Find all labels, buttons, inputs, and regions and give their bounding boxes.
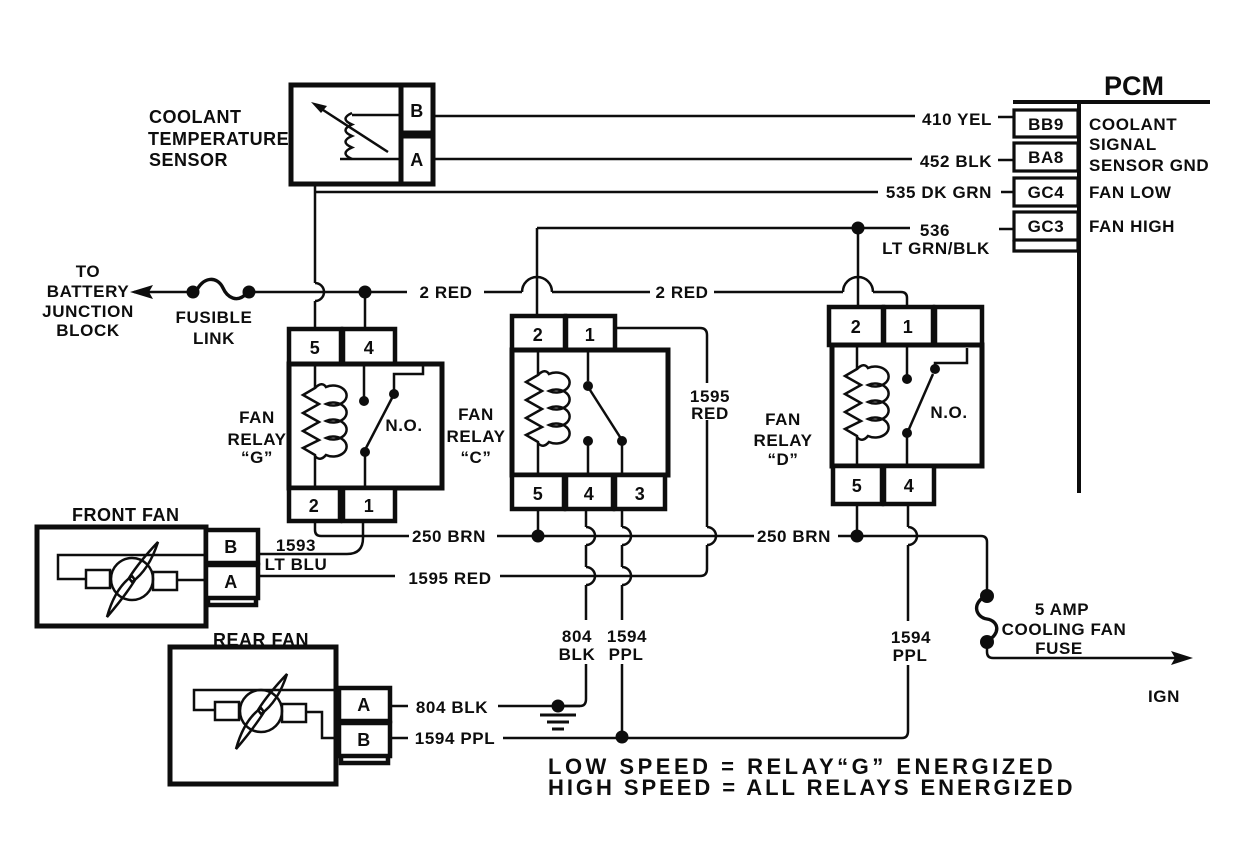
svg-text:COOLANT: COOLANT: [1089, 115, 1177, 134]
svg-text:TEMPERATURE: TEMPERATURE: [148, 129, 289, 149]
svg-text:452 BLK: 452 BLK: [920, 152, 992, 171]
svg-text:BATTERY: BATTERY: [47, 282, 130, 301]
svg-text:BB9: BB9: [1028, 115, 1064, 134]
svg-text:FRONT FAN: FRONT FAN: [72, 505, 180, 525]
svg-text:5: 5: [533, 484, 544, 504]
svg-text:1: 1: [364, 496, 375, 516]
svg-text:BA8: BA8: [1028, 148, 1064, 167]
svg-text:5 AMP: 5 AMP: [1035, 600, 1089, 619]
svg-text:BLK: BLK: [559, 645, 596, 664]
svg-text:“C”: “C”: [460, 448, 491, 467]
svg-text:FAN HIGH: FAN HIGH: [1089, 217, 1175, 236]
svg-text:RED: RED: [691, 404, 729, 423]
svg-text:FUSE: FUSE: [1035, 639, 1083, 658]
svg-text:REAR FAN: REAR FAN: [213, 630, 309, 650]
svg-text:804: 804: [562, 627, 592, 646]
svg-text:535 DK GRN: 535 DK GRN: [886, 183, 992, 202]
svg-text:LT GRN/BLK: LT GRN/BLK: [882, 239, 990, 258]
svg-text:1594 PPL: 1594 PPL: [415, 729, 495, 748]
svg-text:536: 536: [920, 221, 950, 240]
svg-text:RELAY: RELAY: [227, 430, 286, 449]
svg-text:IGN: IGN: [1148, 687, 1180, 706]
svg-text:1593: 1593: [276, 536, 316, 555]
svg-text:SIGNAL: SIGNAL: [1089, 135, 1157, 154]
svg-text:FAN: FAN: [765, 410, 801, 429]
svg-text:1594: 1594: [607, 627, 647, 646]
svg-text:2: 2: [533, 325, 544, 345]
svg-text:A: A: [224, 572, 238, 592]
svg-text:GC4: GC4: [1028, 183, 1065, 202]
svg-text:FAN: FAN: [458, 405, 494, 424]
svg-text:4: 4: [904, 476, 915, 496]
svg-text:COOLING FAN: COOLING FAN: [1002, 620, 1127, 639]
svg-text:B: B: [410, 101, 424, 121]
svg-text:PPL: PPL: [609, 645, 644, 664]
svg-text:1595 RED: 1595 RED: [408, 569, 491, 588]
svg-text:“D”: “D”: [767, 450, 798, 469]
svg-text:4: 4: [584, 484, 595, 504]
svg-text:410 YEL: 410 YEL: [922, 110, 992, 129]
svg-text:COOLANT: COOLANT: [149, 107, 242, 127]
svg-text:1: 1: [585, 325, 596, 345]
svg-text:RELAY: RELAY: [753, 431, 812, 450]
svg-text:B: B: [224, 537, 238, 557]
svg-text:5: 5: [310, 338, 321, 358]
svg-text:B: B: [357, 730, 371, 750]
svg-text:250 BRN: 250 BRN: [757, 527, 831, 546]
svg-text:1594: 1594: [891, 628, 931, 647]
svg-text:250 BRN: 250 BRN: [412, 527, 486, 546]
svg-text:FUSIBLE: FUSIBLE: [176, 308, 253, 327]
svg-text:“G”: “G”: [241, 448, 273, 467]
svg-text:804 BLK: 804 BLK: [416, 698, 488, 717]
svg-text:1: 1: [903, 317, 914, 337]
svg-text:HIGH SPEED = ALL RELAYS ENERGI: HIGH SPEED = ALL RELAYS ENERGIZED: [548, 775, 1075, 800]
svg-text:N.O.: N.O.: [930, 403, 967, 422]
svg-text:FAN LOW: FAN LOW: [1089, 183, 1172, 202]
svg-text:N.O.: N.O.: [385, 416, 422, 435]
svg-text:FAN: FAN: [239, 408, 275, 427]
svg-text:2 RED: 2 RED: [419, 283, 472, 302]
svg-text:2 RED: 2 RED: [655, 283, 708, 302]
svg-text:4: 4: [364, 338, 375, 358]
svg-text:SENSOR GND: SENSOR GND: [1089, 156, 1209, 175]
svg-text:A: A: [410, 150, 424, 170]
svg-text:RELAY: RELAY: [446, 427, 505, 446]
svg-text:GC3: GC3: [1028, 217, 1065, 236]
svg-text:PPL: PPL: [893, 646, 928, 665]
svg-text:A: A: [357, 695, 371, 715]
svg-text:PCM: PCM: [1104, 71, 1164, 101]
svg-text:3: 3: [635, 484, 646, 504]
svg-text:2: 2: [851, 317, 862, 337]
svg-text:LT BLU: LT BLU: [265, 555, 328, 574]
svg-text:LINK: LINK: [193, 329, 235, 348]
svg-text:5: 5: [852, 476, 863, 496]
svg-text:2: 2: [309, 496, 320, 516]
svg-text:SENSOR: SENSOR: [149, 150, 228, 170]
svg-text:TO: TO: [76, 262, 101, 281]
svg-text:JUNCTION: JUNCTION: [42, 302, 134, 321]
svg-text:BLOCK: BLOCK: [56, 321, 120, 340]
